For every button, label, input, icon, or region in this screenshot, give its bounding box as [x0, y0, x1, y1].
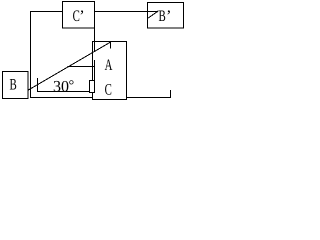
- text B: [10, 79, 16, 90]
- 30 degree label box partial border top: [68, 66, 96, 68]
- tick mark at upper end of diagonal: [110, 43, 112, 49]
- wire middle vertical segment redrawn over box lower: [94, 60, 96, 93]
- 30 degree label box partial border left: [37, 78, 39, 92]
- node label box B': [148, 3, 184, 29]
- wire middle vertical upper segment C' to A: [94, 11, 96, 52]
- text 30 degrees: [54, 80, 74, 91]
- right angle mark at C: [90, 81, 95, 93]
- wire middle vertical lower segment A to C: [94, 60, 96, 93]
- node label box B: [3, 72, 29, 99]
- text C': [73, 10, 83, 21]
- wire left vertical line: [30, 11, 32, 98]
- wire diagonal line B to A extended: [28, 42, 112, 91]
- wire end tick at right end of bottom line: [170, 90, 172, 98]
- text B': [159, 10, 170, 21]
- wire bottom horizontal line through B and C: [30, 97, 171, 99]
- node label box C': [63, 2, 95, 29]
- wire diagonal segment arriving at B' vertex: [148, 11, 159, 19]
- wire top line segment inside B' box to vertex: [148, 11, 159, 13]
- node label box around A and C: [93, 42, 127, 100]
- text A: [105, 59, 113, 70]
- 30 degree label box border bottom: [37, 91, 94, 93]
- wire top horizontal line from left corner to B': [30, 11, 159, 13]
- wire middle vertical segment redrawn over box top: [94, 42, 96, 52]
- text C: [105, 84, 111, 95]
